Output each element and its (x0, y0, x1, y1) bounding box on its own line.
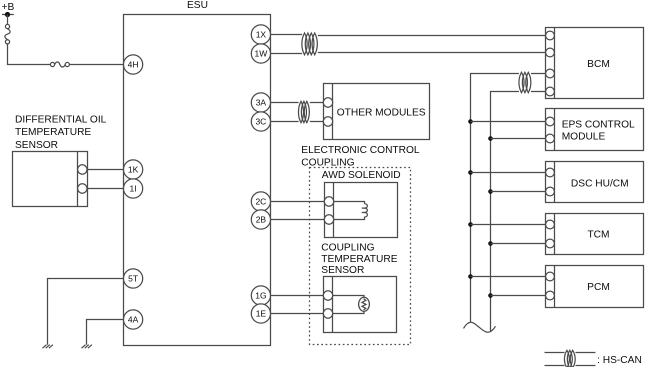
svg-text:: HS-CAN: : HS-CAN (597, 355, 642, 366)
svg-text:5T: 5T (128, 274, 138, 284)
svg-text:4H: 4H (128, 60, 139, 70)
junction dot CAN-L EPS (488, 136, 493, 141)
ground (4A) (82, 345, 92, 349)
wire CAN-H to EPS (471, 121, 546, 123)
junction dot CAN-H PCM (468, 274, 473, 279)
pin 3A (251, 93, 270, 112)
wire from fuse to pin 4H (69, 64, 123, 66)
svg-text:2C: 2C (255, 197, 266, 207)
EPS terminal 2 (546, 134, 555, 143)
DSC terminal 1 (546, 168, 555, 177)
EPS terminal 1 (546, 117, 555, 126)
pin 1G (251, 286, 270, 305)
wire twisted pair to CAN-L bus (491, 92, 519, 332)
wire CAN-L to EPS (491, 138, 546, 140)
svg-text:MODULE: MODULE (562, 132, 606, 143)
AWD solenoid terminal (to 2B) (324, 215, 333, 224)
junction dot CAN-L TCM (488, 241, 493, 246)
sensor connector terminal (to 1I) (78, 184, 87, 193)
electronic control coupling dashed boundary (310, 168, 411, 345)
sensor connector terminal (to 1K) (78, 165, 87, 174)
svg-text:1K: 1K (128, 165, 139, 175)
wire BCM to bus twisted pair (high) (531, 73, 546, 75)
wire from fusible link to fuse (8, 44, 51, 65)
AWD solenoid terminal (to 2C) (324, 197, 333, 206)
svg-text:COUPLING: COUPLING (321, 243, 374, 254)
BCM box (546, 28, 644, 99)
PCM terminal 1 (546, 272, 555, 281)
ESU box (124, 15, 271, 346)
svg-text:ESU: ESU (187, 0, 208, 11)
wire twisted pair to BCM (high) (318, 35, 546, 37)
AWD solenoid box (325, 183, 398, 238)
electronic control coupling label (301, 145, 420, 168)
pin 5T (124, 269, 143, 288)
pin 1X (251, 25, 270, 44)
BCM terminal 1 (546, 31, 555, 40)
wire BCM to bus twisted pair (low) (531, 91, 546, 93)
pin 2C (251, 192, 270, 211)
svg-text:ELECTRONIC CONTROL: ELECTRONIC CONTROL (301, 145, 420, 156)
junction dot CAN-L DSC (488, 189, 493, 194)
other modules box (324, 84, 430, 140)
wire 2C to solenoid (271, 201, 325, 203)
svg-text:1G: 1G (255, 291, 266, 301)
svg-text:2B: 2B (256, 215, 267, 225)
fuse (horizontal wavy symbol) (50, 62, 69, 67)
pin 1I (124, 179, 143, 198)
wire 1E to temp sensor (271, 313, 324, 315)
twisted pair symbol (3A/3C) (298, 101, 309, 122)
BCM terminal 3 (546, 69, 555, 78)
svg-text:EPS CONTROL: EPS CONTROL (562, 120, 635, 131)
PCM terminal 2 (546, 291, 555, 300)
pin 2B (251, 210, 270, 229)
svg-text:AWD SOLENOID: AWD SOLENOID (322, 170, 401, 181)
svg-text:TCM: TCM (587, 230, 609, 241)
wire CAN-L to DSC (491, 191, 546, 193)
wire sensor to 1K (88, 169, 124, 171)
fusible link (vertical wavy symbol) (5, 24, 10, 44)
wire from +B down to fusible link (7, 15, 9, 25)
wire 3C to twisted pair (271, 121, 299, 123)
svg-text:PCM: PCM (587, 282, 610, 293)
svg-text:1W: 1W (255, 49, 268, 59)
EPS control module box (546, 109, 644, 151)
svg-text:1I: 1I (130, 184, 137, 194)
svg-text:DIFFERENTIAL OIL: DIFFERENTIAL OIL (15, 114, 107, 125)
wire 4A to ground (87, 320, 124, 345)
wire twisted pair to BCM (low) (318, 52, 546, 54)
differential oil temperature sensor box (13, 152, 88, 207)
wire CAN-H to TCM (471, 224, 546, 226)
junction dot CAN-H TCM (468, 222, 473, 227)
pin 4A (124, 310, 143, 329)
twisted pair symbol (BCM to CAN bus) (519, 72, 531, 92)
wire CAN-H to DSC (471, 172, 546, 174)
other modules terminal (high) (323, 98, 332, 107)
PCM box (546, 266, 644, 308)
+B bus tap with junction dot (2, 12, 14, 17)
junction dot CAN-H DSC (468, 170, 473, 175)
wire 1X to twisted pair (271, 34, 303, 36)
wire 2B to solenoid (271, 219, 325, 221)
svg-text:COUPLING: COUPLING (301, 157, 354, 168)
svg-text:DSC HU/CM: DSC HU/CM (571, 179, 629, 190)
wire 5T to ground (48, 279, 124, 345)
wire 3A to twisted pair (271, 102, 299, 104)
BCM terminal 2 (546, 48, 555, 57)
svg-text:1E: 1E (256, 309, 267, 319)
BCM terminal 4 (546, 87, 555, 96)
wire 1W to twisted pair (271, 53, 303, 55)
wire CAN-H to PCM (471, 276, 546, 278)
twisted pair symbol (1X/1W HS-CAN) (302, 33, 317, 55)
wire 1G to temp sensor (271, 295, 324, 297)
EPS control module label (562, 120, 635, 143)
wire CAN-L to TCM (491, 243, 546, 245)
pin 1E (251, 304, 270, 323)
junction dot CAN-L PCM (488, 293, 493, 298)
pin 3C (251, 112, 270, 131)
svg-text:SENSOR: SENSOR (321, 265, 364, 276)
coupling temp sensor terminal (to 1E) (323, 309, 332, 318)
svg-text:BCM: BCM (587, 59, 610, 70)
DSC HU/CM box (546, 162, 644, 203)
wire twisted pair to other modules (high) (310, 102, 324, 104)
TCM box (546, 214, 644, 255)
solenoid coil L1 (334, 202, 368, 220)
wire CAN-L to PCM (491, 295, 546, 297)
svg-text:+B: +B (2, 2, 15, 13)
ground (5T) (43, 345, 53, 349)
wire sensor to 1I (88, 188, 124, 190)
svg-text:OTHER MODULES: OTHER MODULES (337, 107, 426, 118)
coupling temperature sensor label (321, 243, 397, 277)
coupling temperature sensor box (324, 277, 397, 333)
svg-text:4A: 4A (128, 315, 139, 325)
pin 1K (124, 160, 143, 179)
pin 1W (251, 44, 270, 63)
svg-text:TEMPERATURE: TEMPERATURE (321, 254, 397, 265)
wire twisted pair to CAN-H bus (471, 74, 519, 323)
thermistor RT1 (333, 296, 370, 314)
bus continuation squiggle (464, 322, 496, 332)
differential oil temperature sensor label (15, 114, 107, 150)
TCM terminal 2 (546, 239, 555, 248)
junction dot CAN-H EPS (468, 119, 473, 124)
pin 4H (124, 55, 143, 74)
other modules terminal (low) (323, 117, 332, 126)
HS-CAN legend twisted pair symbol (545, 350, 596, 367)
coupling temp sensor terminal (to 1G) (323, 291, 332, 300)
wire twisted pair to other modules (low) (310, 121, 324, 123)
svg-text:3C: 3C (255, 117, 266, 127)
TCM terminal 1 (546, 220, 555, 229)
DSC terminal 2 (546, 187, 555, 196)
svg-text:1X: 1X (256, 30, 267, 40)
svg-text:TEMPERATURE: TEMPERATURE (15, 127, 91, 138)
svg-text:3A: 3A (256, 98, 267, 108)
svg-text:SENSOR: SENSOR (15, 140, 58, 151)
